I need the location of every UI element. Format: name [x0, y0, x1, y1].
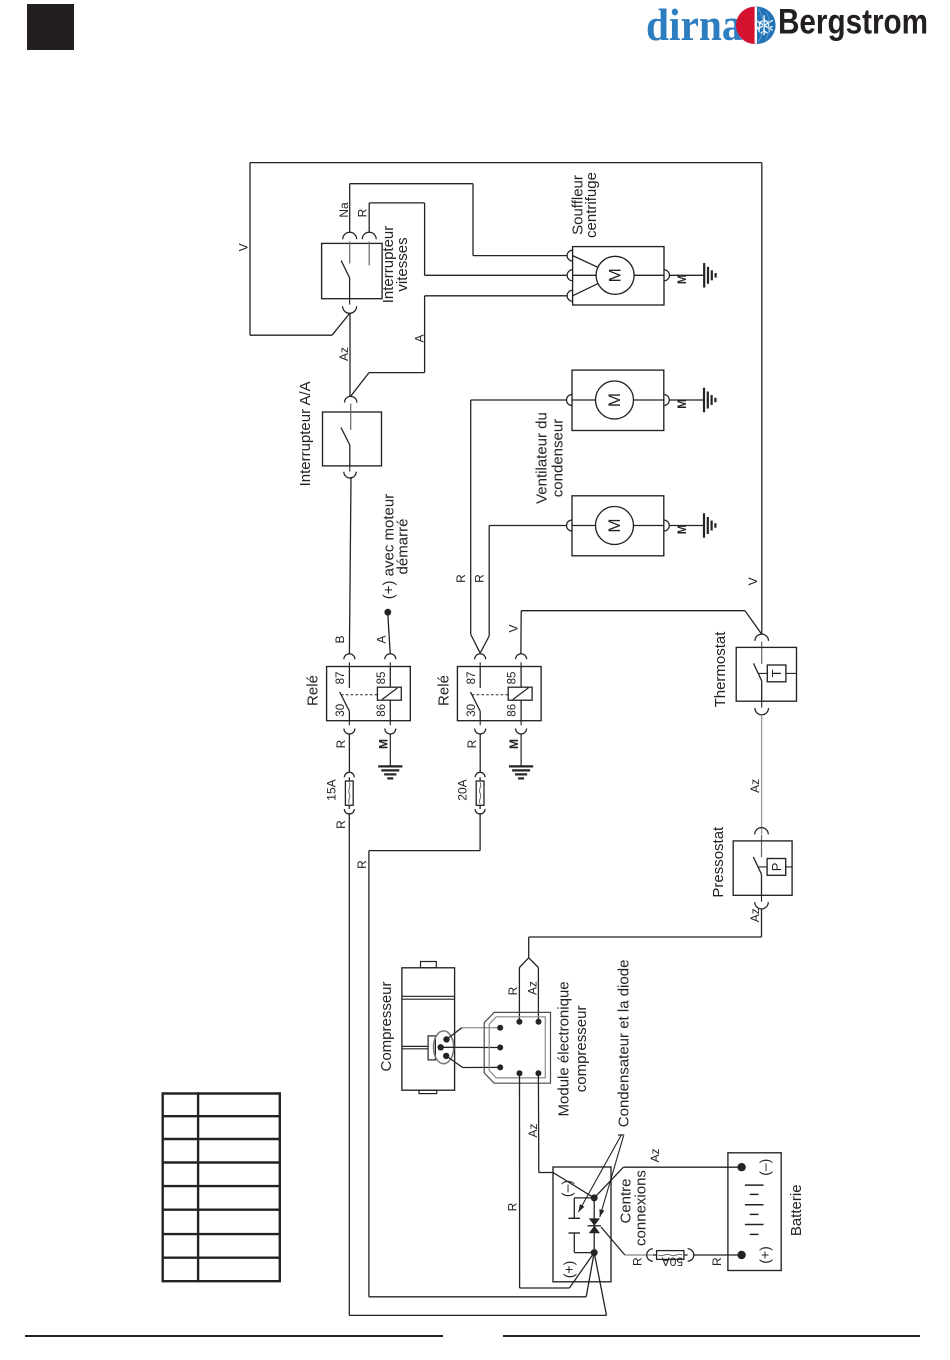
svg-text:M: M — [677, 275, 689, 285]
svg-text:V: V — [507, 624, 521, 632]
svg-text:Thermostat: Thermostat — [712, 631, 729, 708]
svg-text:Az: Az — [648, 1148, 662, 1162]
svg-text:85: 85 — [376, 672, 388, 685]
svg-text:Az: Az — [748, 779, 762, 793]
svg-text:Condensateur et la diode: Condensateur et la diode — [616, 960, 633, 1128]
svg-text:Ventilateur du: Ventilateur du — [534, 412, 551, 504]
svg-text:R: R — [355, 860, 369, 869]
svg-text:(–): (–) — [559, 1180, 575, 1197]
svg-text:R: R — [710, 1257, 724, 1266]
svg-text:Na: Na — [337, 202, 351, 218]
svg-text:P: P — [769, 863, 784, 872]
svg-text:R: R — [356, 208, 370, 217]
svg-text:R: R — [506, 1202, 520, 1211]
svg-text:M: M — [605, 393, 624, 407]
svg-text:87: 87 — [466, 672, 478, 685]
svg-text:30: 30 — [335, 704, 347, 717]
svg-text:30: 30 — [466, 704, 478, 717]
svg-text:centrifuge: centrifuge — [583, 172, 600, 238]
svg-text:Az: Az — [748, 908, 762, 922]
svg-text:Compresseur: Compresseur — [378, 981, 395, 1071]
svg-text:dirna: dirna — [646, 0, 743, 50]
svg-text:Batterie: Batterie — [788, 1184, 805, 1236]
svg-text:87: 87 — [335, 672, 347, 685]
svg-text:Az: Az — [526, 981, 540, 995]
svg-text:connexions: connexions — [633, 1170, 650, 1246]
svg-text:Pressostat: Pressostat — [710, 826, 727, 898]
svg-text:A: A — [375, 635, 389, 643]
svg-text:Az: Az — [526, 1123, 540, 1137]
svg-text:R: R — [334, 739, 348, 748]
svg-text:(+): (+) — [757, 1246, 773, 1264]
svg-text:50A: 50A — [662, 1255, 683, 1269]
svg-text:R: R — [334, 820, 348, 829]
svg-text:R: R — [473, 574, 487, 583]
svg-text:compresseur: compresseur — [573, 1006, 590, 1093]
svg-text:20A: 20A — [455, 779, 469, 800]
svg-text:démarré: démarré — [395, 519, 412, 575]
svg-text:M: M — [677, 525, 689, 535]
svg-text:M: M — [677, 399, 689, 409]
svg-text:vitesses: vitesses — [394, 237, 411, 291]
svg-text:Az: Az — [337, 347, 351, 361]
svg-text:(–): (–) — [757, 1159, 773, 1176]
svg-text:R: R — [465, 739, 479, 748]
svg-text:M: M — [605, 518, 624, 532]
svg-text:Bergstrom: Bergstrom — [778, 2, 928, 41]
svg-text:Relé: Relé — [305, 675, 322, 706]
svg-text:M: M — [377, 739, 391, 749]
svg-text:15A: 15A — [325, 779, 339, 800]
svg-text:R: R — [506, 986, 520, 995]
svg-text:M: M — [606, 268, 625, 282]
svg-text:R: R — [454, 574, 468, 583]
svg-text:86: 86 — [376, 704, 388, 717]
svg-text:T: T — [769, 669, 784, 677]
svg-text:Module électronique: Module électronique — [556, 981, 573, 1116]
svg-text:Interrupteur A/A: Interrupteur A/A — [297, 381, 314, 486]
svg-text:Relé: Relé — [435, 675, 452, 706]
svg-text:condenseur: condenseur — [550, 419, 567, 497]
svg-text:86: 86 — [507, 704, 519, 717]
svg-text:V: V — [236, 243, 250, 251]
svg-text:R: R — [631, 1257, 645, 1266]
svg-text:(+): (+) — [561, 1261, 577, 1279]
svg-text:B: B — [333, 635, 347, 643]
svg-text:V: V — [746, 577, 760, 585]
svg-text:M: M — [507, 739, 521, 749]
svg-text:A: A — [413, 334, 427, 342]
svg-text:85: 85 — [507, 672, 519, 685]
